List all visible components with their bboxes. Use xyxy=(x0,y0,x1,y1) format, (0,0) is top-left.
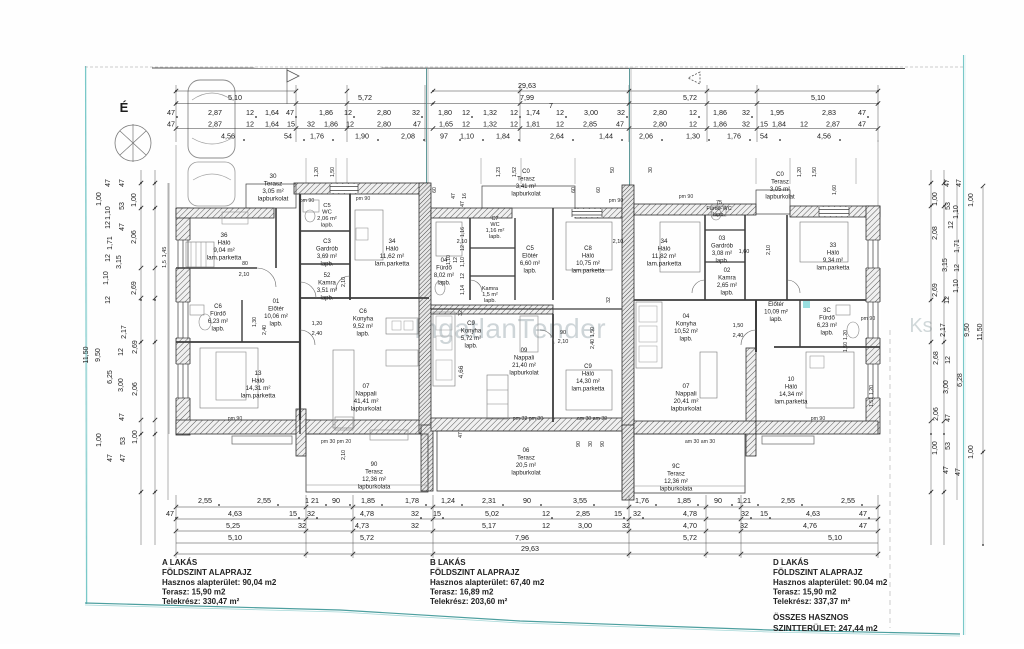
svg-text:12: 12 xyxy=(105,296,112,304)
svg-text:10,06 m²: 10,06 m² xyxy=(264,314,288,320)
svg-text:90: 90 xyxy=(560,330,566,336)
svg-text:am 30 am 30: am 30 am 30 xyxy=(577,416,607,422)
svg-text:Kamra: Kamra xyxy=(318,281,336,287)
svg-text:1,85: 1,85 xyxy=(361,496,375,505)
window in A top raised wall xyxy=(330,184,358,193)
svg-text:Terasz: Terasz xyxy=(264,181,283,188)
cyan marks xyxy=(803,301,810,308)
svg-text:1,76: 1,76 xyxy=(635,496,649,505)
svg-text:47: 47 xyxy=(105,179,112,187)
svg-text:32: 32 xyxy=(298,521,306,530)
svg-text:4,66: 4,66 xyxy=(458,365,465,378)
svg-text:1,64: 1,64 xyxy=(265,108,279,117)
window in B top wall xyxy=(572,209,602,217)
svg-text:2,55: 2,55 xyxy=(781,496,795,505)
svg-text:1,50: 1,50 xyxy=(843,342,849,352)
svg-text:4,63: 4,63 xyxy=(806,509,820,518)
svg-text:5,10: 5,10 xyxy=(811,93,825,102)
svg-text:2,68: 2,68 xyxy=(933,351,940,365)
svg-text:2,17: 2,17 xyxy=(940,323,947,337)
svg-text:2,10: 2,10 xyxy=(341,450,347,460)
svg-text:41,41 m²: 41,41 m² xyxy=(354,398,379,405)
svg-text:1,81: 1,81 xyxy=(526,120,540,129)
svg-text:C5: C5 xyxy=(526,246,534,252)
svg-text:13: 13 xyxy=(254,370,262,377)
svg-text:lam.parketta: lam.parketta xyxy=(241,393,276,400)
svg-text:47: 47 xyxy=(119,179,126,187)
svg-text:Fürdő: Fürdő xyxy=(436,266,452,272)
svg-text:1,86: 1,86 xyxy=(713,108,727,117)
svg-text:Konyha: Konyha xyxy=(676,322,697,328)
svg-text:2,85: 2,85 xyxy=(583,120,597,129)
svg-text:5,10: 5,10 xyxy=(828,533,842,542)
svg-text:4,70: 4,70 xyxy=(683,521,697,530)
svg-text:12: 12 xyxy=(944,296,951,304)
svg-text:3,00: 3,00 xyxy=(578,521,592,530)
svg-text:2,69: 2,69 xyxy=(932,283,939,297)
svg-text:lapb.: lapb. xyxy=(437,281,450,287)
svg-text:2,06: 2,06 xyxy=(639,132,653,141)
svg-text:14,34 m²: 14,34 m² xyxy=(779,392,803,398)
svg-text:pm 90: pm 90 xyxy=(356,196,371,202)
svg-text:07: 07 xyxy=(682,383,690,390)
svg-text:Konyha: Konyha xyxy=(461,329,482,335)
svg-text:47: 47 xyxy=(858,120,866,129)
svg-text:12: 12 xyxy=(510,120,518,129)
svg-text:1,50: 1,50 xyxy=(330,167,336,177)
svg-text:47: 47 xyxy=(956,179,963,187)
svg-text:60: 60 xyxy=(571,187,577,193)
svg-text:1,16: 1,16 xyxy=(460,227,466,237)
svg-text:53: 53 xyxy=(120,437,127,445)
svg-text:2,55: 2,55 xyxy=(841,496,855,505)
svg-text:Háló: Háló xyxy=(582,254,595,260)
svg-text:2,55: 2,55 xyxy=(257,496,271,505)
svg-text:lapb.: lapb. xyxy=(489,234,501,240)
svg-text:lam.parketta: lam.parketta xyxy=(207,255,242,262)
svg-text:1,10: 1,10 xyxy=(446,255,452,265)
svg-text:1,23: 1,23 xyxy=(496,167,502,177)
diagonal tick marks on dim lines xyxy=(174,89,178,93)
svg-text:4,76: 4,76 xyxy=(803,521,817,530)
svg-text:2,10: 2,10 xyxy=(457,239,468,245)
svg-text:pm 90: pm 90 xyxy=(811,416,826,422)
svg-text:1,76: 1,76 xyxy=(727,132,741,141)
svg-text:Terasz: 15,90 m2: Terasz: 15,90 m2 xyxy=(162,588,226,597)
svg-text:2,40: 2,40 xyxy=(312,331,323,337)
svg-text:1,45: 1,45 xyxy=(162,247,168,258)
svg-text:lam.parketta: lam.parketta xyxy=(375,261,410,268)
svg-text:C6: C6 xyxy=(214,304,222,310)
svg-text:47: 47 xyxy=(858,108,866,117)
svg-text:4,73: 4,73 xyxy=(355,521,369,530)
svg-text:1,32: 1,32 xyxy=(483,120,497,129)
svg-text:Fürdő: Fürdő xyxy=(819,316,835,322)
svg-text:lapb.: lapb. xyxy=(320,262,333,268)
svg-text:1,00: 1,00 xyxy=(932,441,939,455)
svg-text:2,06: 2,06 xyxy=(132,382,139,396)
svg-text:21,40 m²: 21,40 m² xyxy=(512,363,536,369)
svg-text:1,00: 1,00 xyxy=(96,192,103,206)
svg-text:52: 52 xyxy=(324,273,331,279)
svg-text:2,31: 2,31 xyxy=(482,496,496,505)
svg-text:lapburkolata: lapburkolata xyxy=(358,485,391,491)
svg-text:32: 32 xyxy=(742,120,750,129)
svg-text:3,00: 3,00 xyxy=(943,380,950,394)
svg-text:32: 32 xyxy=(617,108,625,117)
svg-text:1,50: 1,50 xyxy=(733,323,744,329)
svg-text:lapb.: lapb. xyxy=(320,296,333,302)
window in D top right wall xyxy=(819,207,849,216)
svg-text:12: 12 xyxy=(105,254,112,262)
svg-text:9,04 m²: 9,04 m² xyxy=(213,247,234,254)
svg-text:B LAKÁS: B LAKÁS xyxy=(430,558,466,567)
svg-text:47: 47 xyxy=(451,193,457,199)
svg-text:3,08 m²: 3,08 m² xyxy=(712,251,732,257)
svg-text:1,00: 1,00 xyxy=(96,433,103,447)
svg-text:lam.parketta: lam.parketta xyxy=(647,261,682,268)
svg-text:lapb.: lapb. xyxy=(820,331,833,337)
svg-text:1,20: 1,20 xyxy=(314,167,320,177)
svg-text:1,14: 1,14 xyxy=(460,285,466,295)
svg-text:3,15: 3,15 xyxy=(116,255,123,269)
svg-text:2,40: 2,40 xyxy=(590,339,596,349)
svg-text:12: 12 xyxy=(948,221,955,229)
svg-text:1,52: 1,52 xyxy=(512,167,518,177)
svg-text:11,82 m²: 11,82 m² xyxy=(652,253,676,260)
svg-text:32: 32 xyxy=(307,120,315,129)
svg-text:lapb.: lapb. xyxy=(464,344,477,350)
svg-text:2,10: 2,10 xyxy=(558,339,569,345)
svg-text:1,85: 1,85 xyxy=(677,496,691,505)
svg-text:2,85: 2,85 xyxy=(576,509,590,518)
svg-text:Gardrób: Gardrób xyxy=(316,247,339,253)
svg-text:47: 47 xyxy=(167,120,175,129)
svg-text:Nappali: Nappali xyxy=(514,356,534,362)
svg-text:5,10: 5,10 xyxy=(228,93,242,102)
svg-text:1,86: 1,86 xyxy=(324,120,338,129)
svg-text:C8: C8 xyxy=(584,246,592,252)
svg-text:lapb.: lapb. xyxy=(356,332,369,338)
svg-text:Ks: Ks xyxy=(909,315,932,337)
svg-text:7: 7 xyxy=(549,101,553,110)
svg-text:lapb.: lapb. xyxy=(679,337,692,343)
svg-text:1,84: 1,84 xyxy=(496,132,510,141)
svg-text:C9: C9 xyxy=(467,321,475,327)
svg-text:32: 32 xyxy=(412,108,420,117)
svg-text:1,10: 1,10 xyxy=(460,132,474,141)
svg-text:Elötér: Elötér xyxy=(522,254,538,260)
svg-text:Háló: Háló xyxy=(218,240,231,247)
svg-text:12: 12 xyxy=(462,108,470,117)
svg-text:97: 97 xyxy=(440,132,448,141)
svg-text:pm 90: pm 90 xyxy=(609,198,624,204)
svg-text:1,86: 1,86 xyxy=(319,108,333,117)
svg-text:90: 90 xyxy=(332,496,340,505)
svg-text:ÖSSZES HASZNOS: ÖSSZES HASZNOS xyxy=(773,612,849,622)
svg-text:1,10: 1,10 xyxy=(105,206,112,220)
svg-text:A LAKÁS: A LAKÁS xyxy=(162,558,198,567)
svg-text:14,31 m²: 14,31 m² xyxy=(246,385,271,392)
car 2 xyxy=(188,162,235,206)
svg-text:lapburkolat: lapburkolat xyxy=(258,196,289,203)
B terrace outline xyxy=(482,186,575,208)
furniture unit A xyxy=(186,242,214,267)
svg-text:FÖLDSZINT ALAPRAJZ: FÖLDSZINT ALAPRAJZ xyxy=(162,568,252,577)
svg-text:1 21: 1 21 xyxy=(305,496,319,505)
svg-text:lapburkolat: lapburkolat xyxy=(351,406,382,413)
svg-text:2,80: 2,80 xyxy=(653,120,667,129)
svg-text:1,64: 1,64 xyxy=(265,120,279,129)
svg-text:Terasz: Terasz xyxy=(771,180,789,186)
svg-text:Háló: Háló xyxy=(785,385,798,391)
svg-text:32: 32 xyxy=(606,297,612,303)
svg-text:32: 32 xyxy=(411,521,419,530)
furniture unit D xyxy=(660,222,700,272)
terrace D bottom xyxy=(634,434,745,493)
svg-text:47: 47 xyxy=(460,201,466,207)
svg-text:1,78: 1,78 xyxy=(405,496,419,505)
partitions unit B xyxy=(469,218,471,300)
svg-text:Előtér: Előtér xyxy=(768,302,784,308)
svg-text:C5: C5 xyxy=(323,203,330,209)
svg-text:4,56: 4,56 xyxy=(221,132,235,141)
svg-text:3,00: 3,00 xyxy=(118,378,125,392)
party wall A-B xyxy=(419,183,431,433)
svg-text:1,86: 1,86 xyxy=(713,120,727,129)
svg-text:53: 53 xyxy=(945,442,952,450)
svg-text:2,69: 2,69 xyxy=(132,340,139,354)
svg-text:5,10: 5,10 xyxy=(228,533,242,542)
door arcs xyxy=(300,282,316,298)
svg-text:15: 15 xyxy=(433,509,441,518)
svg-text:3,05 m²: 3,05 m² xyxy=(262,188,283,195)
svg-text:2,83: 2,83 xyxy=(822,108,836,117)
svg-text:12: 12 xyxy=(954,264,961,272)
svg-text:03: 03 xyxy=(719,236,726,242)
svg-text:5,72: 5,72 xyxy=(683,93,697,102)
unit A outer walls xyxy=(176,208,190,435)
unit D outer walls xyxy=(634,204,756,215)
svg-text:Konyha: Konyha xyxy=(353,317,374,323)
svg-text:32: 32 xyxy=(458,310,464,316)
svg-text:47: 47 xyxy=(945,414,952,422)
svg-text:1,71: 1,71 xyxy=(107,236,114,250)
svg-text:2,10: 2,10 xyxy=(613,239,624,245)
svg-text:32: 32 xyxy=(633,509,641,518)
svg-text:Háló: Háló xyxy=(827,251,840,257)
svg-text:47: 47 xyxy=(120,454,127,462)
svg-text:lapb.: lapb. xyxy=(484,298,496,304)
svg-text:1,20: 1,20 xyxy=(843,330,849,340)
svg-text:WC: WC xyxy=(322,210,332,216)
svg-text:lapburkolat: lapburkolat xyxy=(671,406,702,413)
svg-text:5,17: 5,17 xyxy=(482,521,496,530)
svg-text:12: 12 xyxy=(344,108,352,117)
svg-text:2,06: 2,06 xyxy=(131,230,138,244)
svg-text:1,95: 1,95 xyxy=(770,108,784,117)
svg-text:C3: C3 xyxy=(323,239,331,245)
svg-text:1,84: 1,84 xyxy=(772,120,786,129)
svg-text:Telekrész: 203,60 m²: Telekrész: 203,60 m² xyxy=(430,597,508,606)
svg-text:lapb.: lapb. xyxy=(269,322,282,328)
svg-text:FÖLDSZINT ALAPRAJZ: FÖLDSZINT ALAPRAJZ xyxy=(773,568,863,577)
svg-text:2,06: 2,06 xyxy=(933,407,940,421)
svg-text:3,41 m²: 3,41 m² xyxy=(516,184,536,190)
fixtures xyxy=(199,314,211,330)
svg-text:90: 90 xyxy=(576,441,582,447)
svg-text:15: 15 xyxy=(614,509,622,518)
svg-text:12: 12 xyxy=(460,273,466,279)
svg-text:1,65: 1,65 xyxy=(439,120,453,129)
svg-text:2,55: 2,55 xyxy=(198,496,212,505)
site boundary xyxy=(86,66,87,604)
svg-text:12,36 m²: 12,36 m² xyxy=(362,477,386,483)
svg-text:12: 12 xyxy=(510,108,518,117)
svg-text:2,40: 2,40 xyxy=(733,333,744,339)
svg-text:47: 47 xyxy=(119,413,126,421)
svg-text:12: 12 xyxy=(689,108,697,117)
svg-text:12: 12 xyxy=(105,221,112,229)
svg-text:2,69: 2,69 xyxy=(131,281,138,295)
svg-text:FÖLDSZINT ALAPRAJZ: FÖLDSZINT ALAPRAJZ xyxy=(430,568,520,577)
top dimension lines xyxy=(176,90,296,92)
svg-text:20,41 m²: 20,41 m² xyxy=(674,398,699,405)
svg-text:15: 15 xyxy=(289,509,297,518)
terrace A bottom xyxy=(306,434,428,492)
svg-text:1,30: 1,30 xyxy=(686,132,700,141)
svg-text:1,20: 1,20 xyxy=(312,321,323,327)
svg-text:1,51: 1,51 xyxy=(869,397,875,407)
svg-text:12: 12 xyxy=(346,120,354,129)
svg-text:2,87: 2,87 xyxy=(208,120,222,129)
svg-text:33: 33 xyxy=(830,243,837,249)
svg-text:90: 90 xyxy=(714,496,722,505)
svg-text:12,36 m²: 12,36 m² xyxy=(664,479,688,485)
svg-text:90: 90 xyxy=(600,441,606,447)
svg-text:12: 12 xyxy=(556,120,564,129)
svg-text:50: 50 xyxy=(610,167,616,173)
svg-text:12: 12 xyxy=(460,245,466,251)
unit B outer walls xyxy=(431,208,512,218)
svg-text:47: 47 xyxy=(107,454,114,462)
svg-text:lapb.: lapb. xyxy=(769,317,782,323)
svg-text:am 30 am 30: am 30 am 30 xyxy=(685,439,715,445)
svg-text:60: 60 xyxy=(596,187,602,193)
bottom dimension lines xyxy=(176,506,878,508)
svg-text:53: 53 xyxy=(119,202,126,210)
svg-text:Hasznos alapterület: 90,04 m2: Hasznos alapterület: 90,04 m2 xyxy=(162,578,277,587)
svg-text:6,23 m²: 6,23 m² xyxy=(208,319,228,325)
svg-text:lapburkolata: lapburkolata xyxy=(660,487,693,493)
svg-text:pm 90: pm 90 xyxy=(300,198,315,204)
svg-text:5,72: 5,72 xyxy=(358,93,372,102)
svg-text:47: 47 xyxy=(943,466,950,474)
terrace B bottom xyxy=(437,431,622,491)
svg-text:12: 12 xyxy=(462,120,470,129)
svg-text:47: 47 xyxy=(616,120,624,129)
svg-text:1,10: 1,10 xyxy=(460,257,466,267)
svg-text:2,80: 2,80 xyxy=(377,120,391,129)
svg-text:lapb.: lapb. xyxy=(523,269,536,275)
svg-text:Háló: Háló xyxy=(252,378,265,385)
svg-text:32: 32 xyxy=(622,521,630,530)
svg-text:lapburkolat: lapburkolat xyxy=(511,471,541,477)
svg-text:2,80: 2,80 xyxy=(377,108,391,117)
svg-text:1,00: 1,00 xyxy=(968,193,975,207)
svg-text:2,64: 2,64 xyxy=(550,132,564,141)
svg-text:04: 04 xyxy=(683,314,690,320)
left dimension columns xyxy=(140,170,142,545)
svg-text:2,10: 2,10 xyxy=(766,245,772,255)
svg-text:02: 02 xyxy=(724,268,731,274)
svg-text:7,96: 7,96 xyxy=(515,533,529,542)
svg-text:1,50: 1,50 xyxy=(590,327,596,337)
svg-text:2,10: 2,10 xyxy=(239,272,250,278)
svg-text:36: 36 xyxy=(220,232,228,239)
svg-text:3C: 3C xyxy=(823,308,831,314)
svg-text:IngatlanTender: IngatlanTender xyxy=(414,313,606,344)
svg-text:2,87: 2,87 xyxy=(208,108,222,117)
svg-text:Gardrób: Gardrób xyxy=(711,244,734,250)
svg-text:1,60: 1,60 xyxy=(832,185,838,195)
svg-text:47: 47 xyxy=(955,468,962,476)
svg-text:Terasz: 16,89 m2: Terasz: 16,89 m2 xyxy=(430,588,494,597)
svg-text:06: 06 xyxy=(523,448,530,454)
svg-text:16: 16 xyxy=(462,193,468,199)
svg-text:Nappali: Nappali xyxy=(675,391,696,398)
svg-text:7,99: 7,99 xyxy=(520,93,534,102)
svg-text:32: 32 xyxy=(741,509,749,518)
svg-text:14,30 m²: 14,30 m² xyxy=(576,379,600,385)
svg-text:15: 15 xyxy=(760,509,768,518)
svg-text:Terasz: Terasz xyxy=(517,456,535,462)
svg-text:lapb.: lapb. xyxy=(715,259,728,265)
svg-text:6,25: 6,25 xyxy=(107,370,114,384)
svg-text:C0: C0 xyxy=(522,169,530,175)
svg-text:C0: C0 xyxy=(776,172,784,178)
svg-text:47: 47 xyxy=(286,108,294,117)
svg-text:6,60 m²: 6,60 m² xyxy=(520,261,540,267)
svg-text:1,44: 1,44 xyxy=(599,132,613,141)
svg-text:lapb.: lapb. xyxy=(720,291,733,297)
car 1 xyxy=(188,80,235,158)
svg-text:3,51 m²: 3,51 m² xyxy=(317,288,337,294)
svg-text:10,75 m²: 10,75 m² xyxy=(576,261,600,267)
svg-text:30: 30 xyxy=(648,167,654,173)
svg-text:6,28: 6,28 xyxy=(957,373,964,387)
terrace A outline top xyxy=(246,184,296,208)
svg-text:Terasz: Terasz xyxy=(667,472,685,478)
svg-text:1,00: 1,00 xyxy=(132,430,139,444)
svg-text:32: 32 xyxy=(411,509,419,518)
svg-text:Terasz: Terasz xyxy=(365,470,383,476)
svg-text:Háló: Háló xyxy=(386,246,399,253)
svg-text:lam.parketta: lam.parketta xyxy=(571,269,605,275)
svg-text:lam.parketta: lam.parketta xyxy=(571,387,605,393)
svg-text:4,63: 4,63 xyxy=(228,509,242,518)
svg-text:pm 90: pm 90 xyxy=(228,416,243,422)
svg-text:pm 90: pm 90 xyxy=(679,194,694,200)
svg-text:Háló: Háló xyxy=(658,246,671,253)
svg-text:1,10: 1,10 xyxy=(953,205,960,219)
svg-text:9,50: 9,50 xyxy=(964,323,971,337)
svg-text:47: 47 xyxy=(944,179,951,187)
svg-text:Terasz: Terasz xyxy=(517,177,535,183)
svg-text:pm 30 pm 20: pm 30 pm 20 xyxy=(321,439,351,445)
partitions unit A xyxy=(275,208,277,268)
svg-text:lam.parketta: lam.parketta xyxy=(816,266,850,272)
